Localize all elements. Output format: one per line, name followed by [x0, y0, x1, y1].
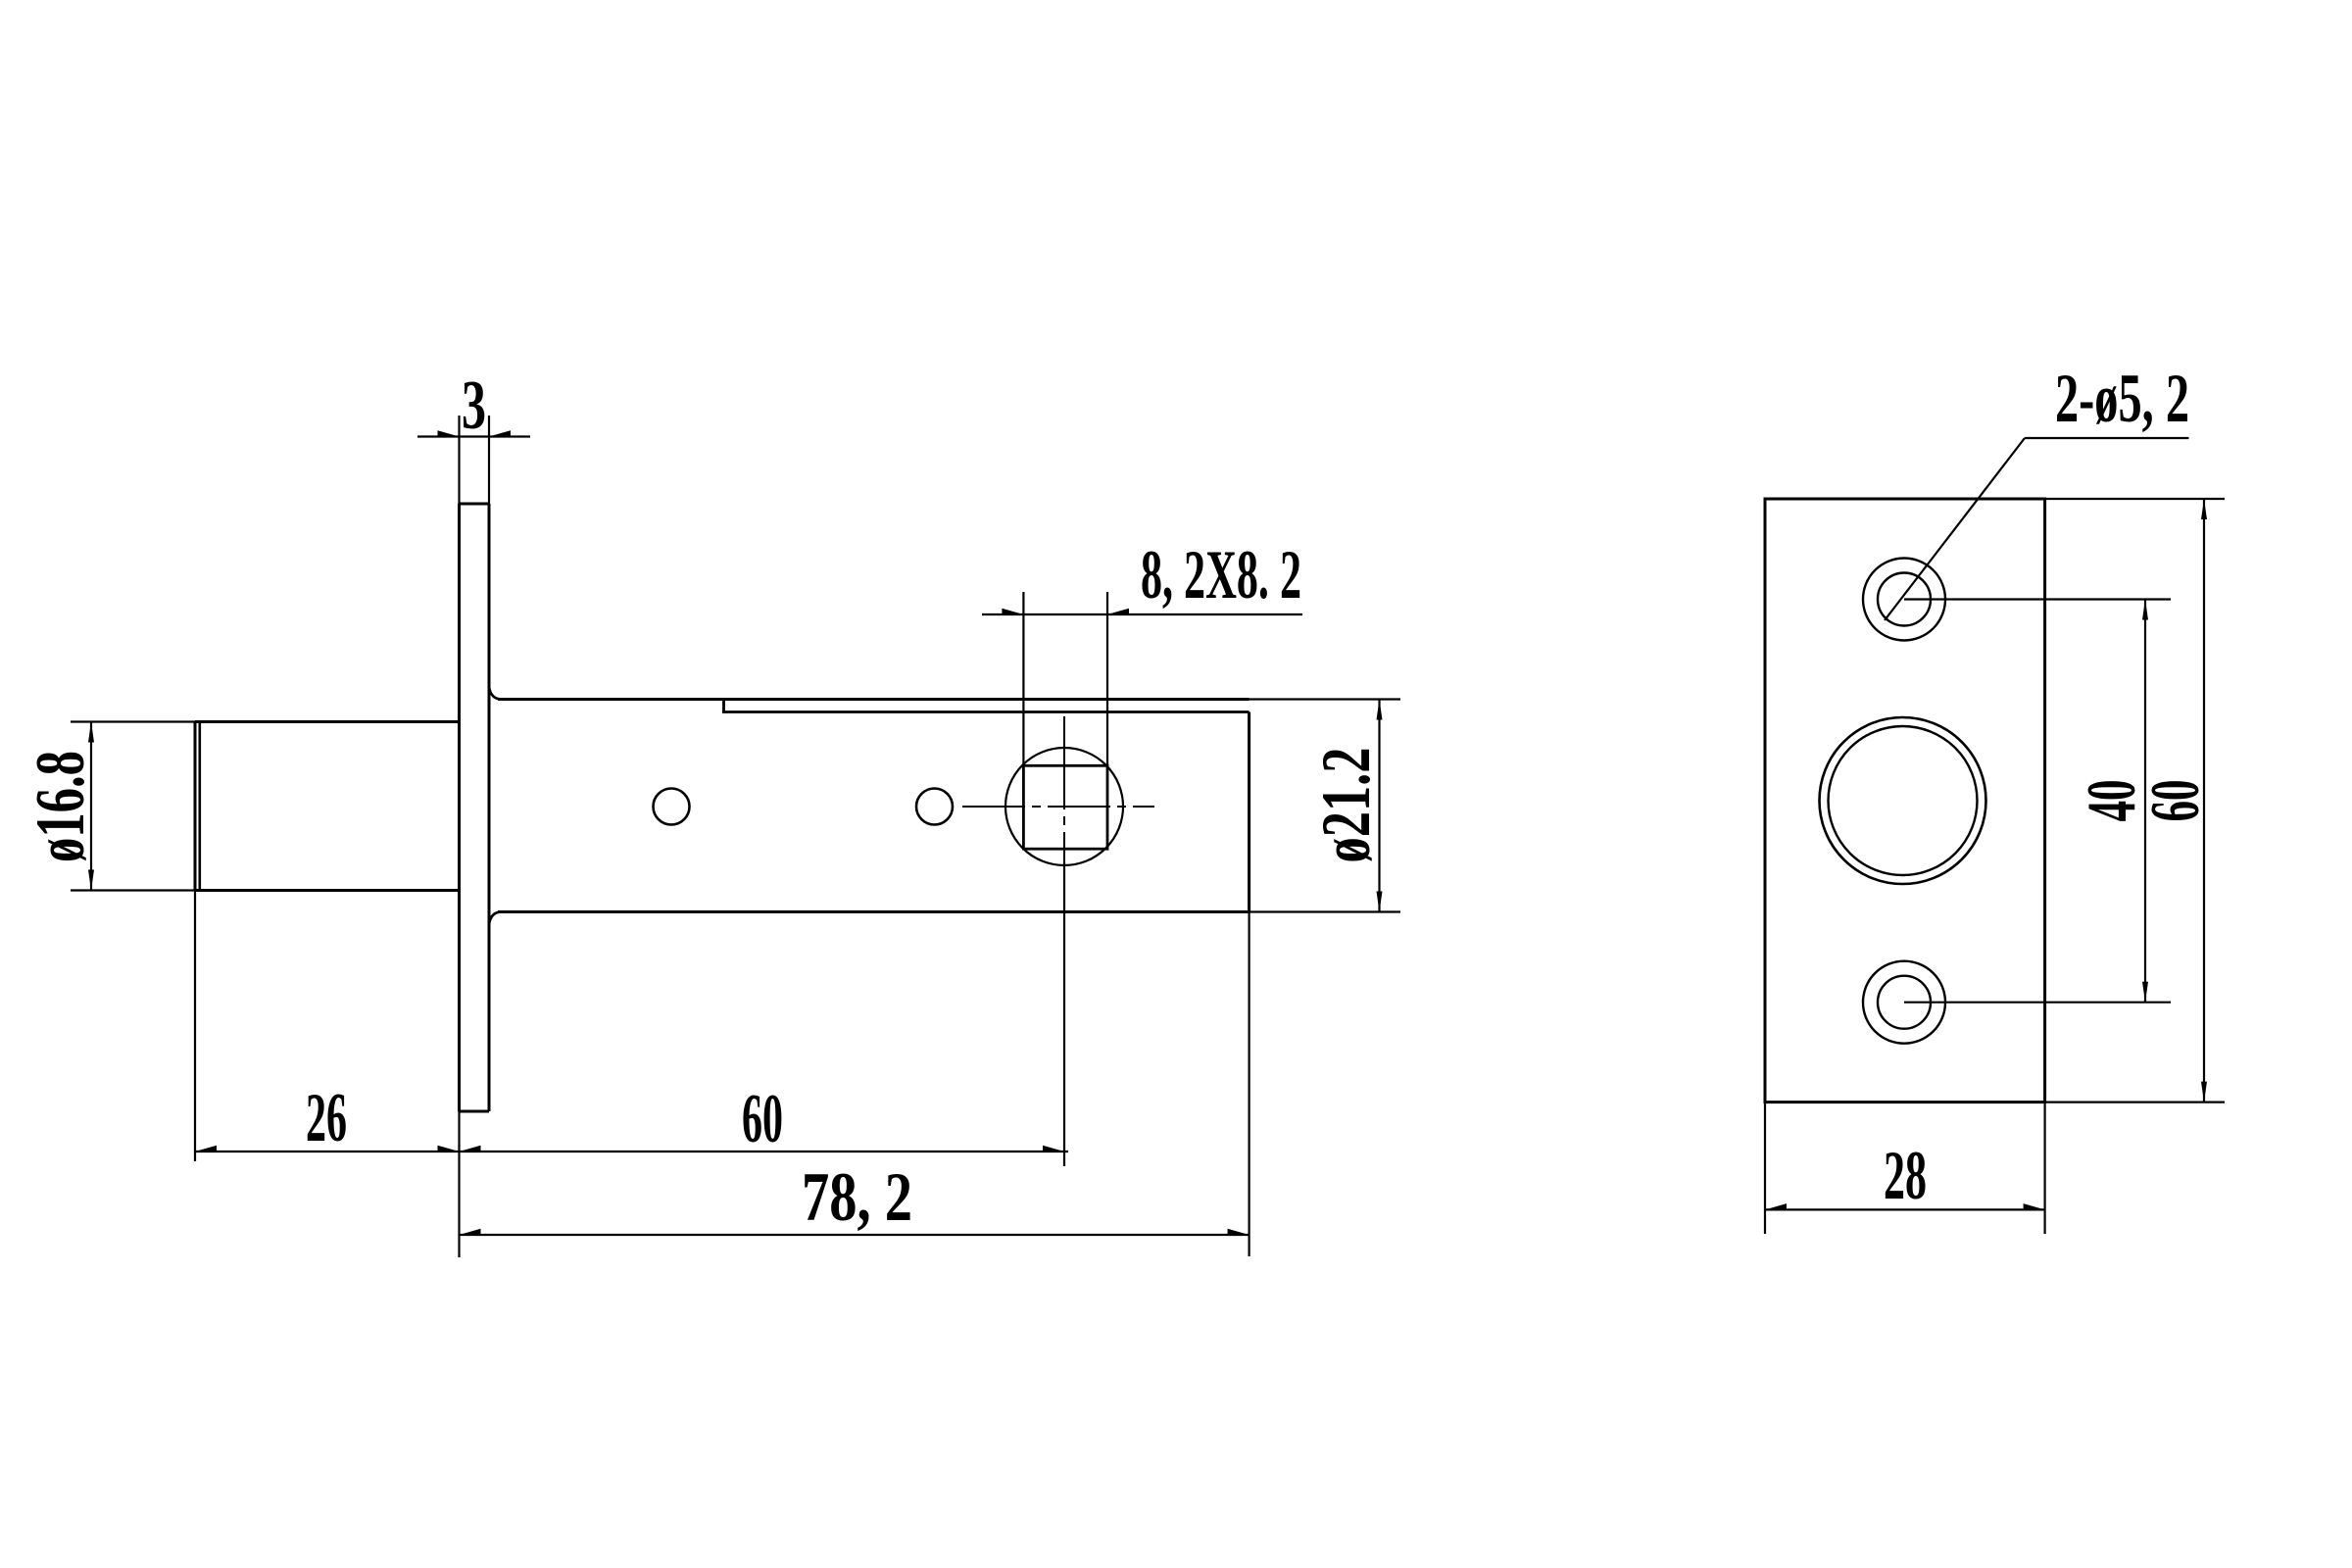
latch case right edge [1248, 712, 1250, 912]
small hole 2 in case [916, 789, 953, 825]
dimension ø16.8 arrow down [88, 870, 94, 891]
screw hole top outer [1863, 559, 1945, 641]
leader 2-ø5,2 diagonal [1885, 438, 2025, 620]
leader 2-ø5,2 underline [2025, 437, 2189, 439]
dimension 40 line [2144, 600, 2146, 1003]
latch bolt face inner line [199, 722, 202, 891]
spindle follower circle [1005, 748, 1123, 865]
dimension ø16.8 arrow up [88, 722, 94, 743]
dimension 78,2 line [460, 1234, 1249, 1236]
latch case step notch vertical [722, 700, 725, 712]
dimension 3 arrow left [438, 430, 460, 436]
dimension 26 arrow right [438, 1146, 460, 1151]
extension line 78,2 right [1248, 912, 1249, 1257]
extension line 40 bottom from screw center [1904, 1002, 2171, 1004]
svg-text:ø21.2: ø21.2 [1308, 748, 1385, 863]
horizontal centerline through spindle [962, 806, 1154, 808]
svg-text:3: 3 [462, 367, 486, 444]
dimension ø21.2 arrow up [1377, 700, 1383, 720]
dimension 8,2X8.2 arrow right [1107, 609, 1129, 614]
extension line 28 left [1764, 1102, 1766, 1234]
dimension ø16.8 line [90, 722, 92, 891]
svg-text:28: 28 [1884, 1138, 1927, 1214]
faceplate front view outline [1765, 499, 2045, 1102]
ø21.2 top extension line [1249, 698, 1400, 700]
dimension 60 right arrow up [2201, 499, 2207, 519]
extension line 60 bottom edge right [2045, 1101, 2225, 1102]
spindle hole front view outer [1820, 717, 1986, 884]
dimension 60 arrow right [1043, 1146, 1064, 1151]
dimension 8,2X8.2 extension lines [1023, 592, 1107, 765]
dimension 78,2 arrow left [460, 1229, 481, 1235]
latch case (side view) top edge [498, 698, 1249, 701]
dimension 8,2X8.2 arrow left [1002, 609, 1023, 614]
dimension 3 arrow right [489, 430, 511, 436]
dimension ø21.2 arrow down [1377, 892, 1383, 912]
spindle square hole [1023, 765, 1107, 849]
svg-text:26: 26 [306, 1080, 347, 1156]
dimension 28 arrow right [2024, 1203, 2045, 1209]
spindle hole front view inner [1829, 726, 1978, 875]
latch case step line [722, 710, 1249, 713]
svg-text:78, 2: 78, 2 [802, 1159, 912, 1236]
dimension 78,2 arrow right [1228, 1229, 1249, 1235]
extension line 28 right [2044, 1102, 2046, 1234]
dimension 28 arrow left [1765, 1203, 1787, 1209]
svg-text:ø16.8: ø16.8 [23, 751, 99, 862]
latch case bottom edge [498, 910, 1249, 913]
latch bolt (side view) top edge with ø16.8 extension [71, 720, 195, 722]
fillet faceplate to case top [489, 686, 502, 700]
dimension 26/60 line [195, 1151, 1068, 1152]
vertical centerline through spindle [1063, 716, 1065, 862]
extension line faceplate left below [458, 1111, 460, 1257]
small hole 1 in case [654, 789, 690, 825]
extension line 60 top edge right [2045, 498, 2225, 500]
dimension 3 extension lines [460, 416, 490, 504]
dimension 40 arrow down [2142, 982, 2148, 1003]
dimension 28 line [1765, 1208, 2045, 1210]
dimension ø21.2 line [1378, 700, 1380, 912]
dimension 60 right arrow down [2201, 1082, 2207, 1102]
dimension 3 line [417, 435, 530, 437]
svg-text:60: 60 [2137, 780, 2214, 822]
latch bolt face outer line [194, 722, 197, 891]
extension line 60 from spindle center [1063, 862, 1065, 1166]
screw hole bottom outer [1863, 961, 1945, 1044]
extension line 26 left [194, 891, 196, 1162]
dimension 40 arrow up [2142, 600, 2148, 620]
fillet faceplate to case bottom [489, 912, 502, 926]
dimension 60 arrow left [460, 1146, 481, 1151]
svg-text:2-ø5, 2: 2-ø5, 2 [2055, 361, 2189, 437]
svg-text:60: 60 [742, 1081, 783, 1157]
extension line 40 top from screw center [1904, 598, 2171, 600]
faceplate (side view) left edge [458, 504, 461, 1111]
faceplate right edge [488, 504, 491, 1111]
faceplate bottom edge [460, 1110, 490, 1113]
svg-text:8, 2X8. 2: 8, 2X8. 2 [1141, 537, 1301, 613]
latch bolt bottom edge with ø16.8 extension [71, 889, 195, 891]
dimension 8,2X8.2 line [982, 613, 1302, 615]
dimension 26 arrow left [195, 1146, 217, 1151]
screw hole top inner [1878, 573, 1931, 626]
screw hole bottom inner [1878, 976, 1931, 1029]
dimension 60 right line [2203, 499, 2205, 1102]
faceplate top edge [460, 503, 490, 506]
ø21.2 bottom extension line [1249, 910, 1400, 912]
